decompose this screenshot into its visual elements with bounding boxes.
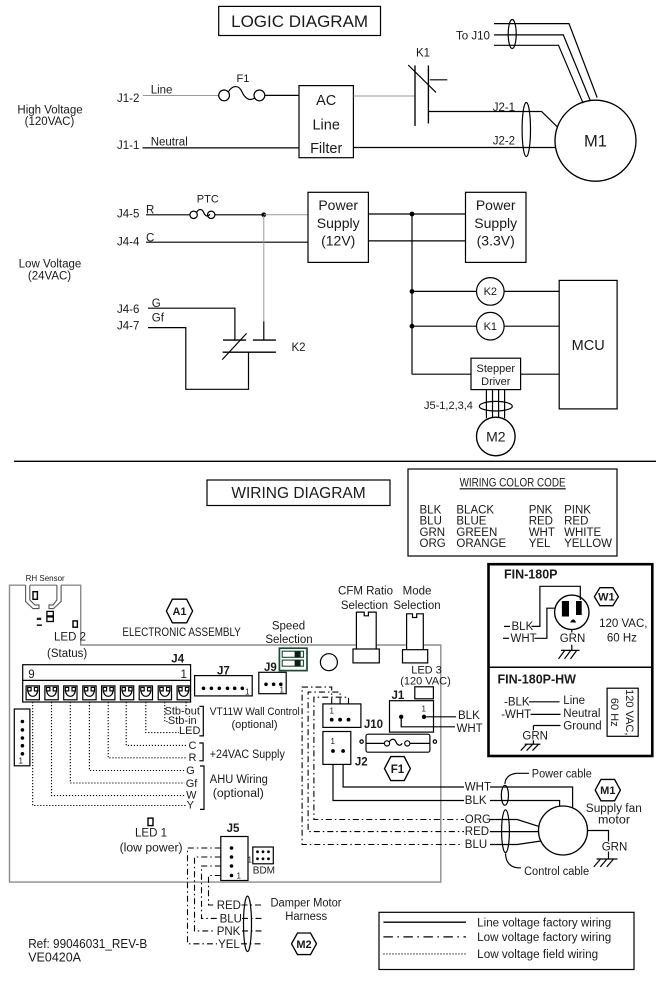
svg-text:Selection: Selection [265, 634, 312, 646]
svg-text:WHT: WHT [529, 527, 555, 539]
svg-text:PNK: PNK [217, 926, 241, 938]
ground symbol (HW) [521, 740, 541, 750]
flag A1 hexagon [166, 599, 192, 623]
svg-text:W1: W1 [598, 592, 615, 604]
svg-text:RH Sensor: RH Sensor [26, 574, 65, 583]
wire BLU stub [242, 917, 264, 919]
svg-text:BLU: BLU [465, 839, 487, 851]
svg-text:Ground: Ground [563, 721, 601, 733]
svg-text:GRN: GRN [602, 841, 628, 853]
wire K1 coil to MCU [504, 325, 559, 327]
wire RED stub [242, 904, 264, 906]
connector J10 body [323, 704, 361, 728]
svg-text:A1: A1 [172, 606, 186, 618]
svg-text:GRN: GRN [420, 527, 446, 539]
svg-text:J1-2: J1-2 [117, 93, 139, 105]
wire J5-2 [492, 390, 494, 418]
wire J4 pin4 C dotted [126, 702, 187, 745]
svg-text:AHU Wiring: AHU Wiring [210, 774, 268, 786]
wire YEL stub [241, 943, 264, 945]
junction dot top trunk [410, 212, 415, 217]
wire J5-1 [485, 390, 487, 419]
component dash 2 [37, 624, 42, 626]
wire PTC to junction [215, 214, 264, 216]
label Damper Motor Harness [271, 898, 342, 923]
wire J2 pin WHT [343, 764, 464, 787]
wire J4 pin6 G dotted [89, 702, 185, 771]
wire trunk A vertical gray [263, 216, 265, 322]
junction dot K1 row [410, 324, 415, 329]
contact K1 (NC) [408, 48, 447, 127]
svg-text:BLU: BLU [420, 516, 442, 528]
wire J4 pin7 Gf dotted [70, 702, 184, 783]
bracket VT11W group [199, 706, 203, 736]
svg-text:120 VAC,: 120 VAC, [599, 618, 647, 630]
DIP switch speed selection [279, 648, 307, 670]
bracket 24VAC group [199, 743, 203, 761]
svg-text:J2: J2 [355, 757, 368, 769]
svg-text:WHITE: WHITE [564, 527, 601, 539]
svg-text:J5: J5 [227, 823, 240, 835]
connector J6 body [14, 709, 30, 766]
separator line [14, 460, 656, 462]
svg-text:F1: F1 [237, 73, 250, 85]
svg-text:Neutral: Neutral [563, 708, 600, 720]
FIN-180P outer box [489, 564, 653, 756]
wire J5-3 [498, 390, 500, 418]
svg-text:LED 2: LED 2 [54, 632, 86, 644]
wire trunk to K1 coil [412, 325, 477, 327]
motor M2 [477, 417, 516, 456]
title WIRING DIAGRAM [207, 480, 390, 506]
svg-text:To J10: To J10 [456, 31, 490, 43]
cable ellipse power [501, 785, 508, 805]
block MCU [559, 280, 617, 409]
svg-text:PNK: PNK [529, 504, 553, 516]
svg-text:K2: K2 [292, 342, 306, 354]
wire PS12 to PS33 top [368, 213, 465, 215]
svg-text:BLK: BLK [458, 710, 480, 722]
mounting hole circle [320, 654, 337, 671]
svg-text:K1: K1 [416, 48, 430, 60]
svg-text:Neutral: Neutral [151, 136, 188, 148]
cable ellipse control [502, 810, 510, 853]
cable ellipse To J10 [508, 20, 516, 49]
label AHU Wiring (optional) [210, 774, 268, 800]
wire To J10 line 2 [494, 35, 590, 101]
svg-text:9: 9 [28, 669, 34, 681]
wire WHT tick [503, 637, 509, 639]
wire WHT to plug [535, 608, 556, 638]
wire motor GRN [588, 831, 609, 860]
LED 2 component [73, 621, 77, 627]
svg-text:Ref: 99046031_REV-B: Ref: 99046031_REV-B [28, 937, 147, 951]
label High Voltage (120VAC) [17, 104, 82, 128]
svg-text:GRN: GRN [560, 633, 586, 645]
wire trunk to K2 coil [412, 290, 477, 292]
relay coil K1 [477, 312, 505, 340]
RH sensor left finger [26, 585, 39, 608]
wire BLK to prong [532, 586, 581, 626]
label Mode Selection [393, 585, 440, 612]
svg-text:WIRING COLOR CODE: WIRING COLOR CODE [460, 477, 566, 489]
legend line dash-dot [383, 936, 466, 938]
svg-text:J4-4: J4-4 [117, 237, 140, 249]
electronic assembly outline [10, 585, 441, 882]
svg-text:ELECTRONIC ASSEMBLY: ELECTRONIC ASSEMBLY [122, 627, 241, 639]
svg-text:C: C [189, 740, 197, 752]
wire J4 pin1 Stb-out dotted [185, 702, 187, 711]
wire PS12 to PS33 bottom [368, 240, 465, 242]
cable ellipse damper harness [244, 896, 252, 951]
svg-text:Damper Motor: Damper Motor [271, 898, 342, 910]
connector J1 body [390, 701, 434, 732]
svg-text:GRN: GRN [522, 730, 548, 742]
wire J2 pin BLK [333, 764, 464, 800]
svg-text:-WHT: -WHT [501, 709, 531, 721]
svg-text:1: 1 [19, 757, 24, 766]
wire J4 pin8 W dotted [52, 702, 186, 796]
svg-text:J1-1: J1-1 [117, 140, 139, 152]
wire BLK to motor [490, 801, 560, 807]
wire trunk A vertical black [263, 322, 265, 341]
callout arc control cable [506, 854, 522, 868]
svg-text:Speed: Speed [272, 620, 305, 632]
plug prong right [576, 601, 582, 615]
block Stepper Driver [471, 358, 521, 389]
wire J5 pin4 to RED [209, 876, 221, 906]
wire J4-6 G to K2 contact [148, 308, 235, 340]
switch Mode base [403, 650, 428, 663]
rotated label 120 VAC 60 Hz box [607, 688, 638, 736]
connector J2 body [323, 732, 351, 765]
wire J1 pin1 BLK [426, 716, 456, 718]
svg-text:Harness: Harness [285, 911, 327, 923]
svg-text:(120 VAC): (120 VAC) [400, 675, 451, 687]
svg-text:M1: M1 [600, 785, 615, 797]
svg-text:LED: LED [179, 725, 200, 737]
svg-text:M2: M2 [486, 429, 506, 445]
block AC Line Filter [299, 86, 353, 158]
wire To J10 line 3 [494, 45, 583, 103]
svg-text:CFM Ratio: CFM Ratio [338, 585, 393, 597]
svg-text:Low voltage factory wiring: Low voltage factory wiring [477, 932, 611, 944]
label Speed Selection [265, 620, 312, 646]
wire J4 pin3 LED dotted [146, 702, 179, 733]
RH sensor right finger [49, 585, 61, 608]
svg-text:Selection: Selection [341, 600, 388, 612]
svg-text:Supply: Supply [317, 215, 360, 231]
motor M1 supply fan [539, 806, 588, 855]
svg-text:Gf: Gf [186, 778, 199, 790]
wire J4 pin2 Stb-in dotted [165, 702, 169, 722]
component dash 1 [37, 618, 41, 620]
junction dot R [261, 212, 266, 217]
svg-text:Control cable: Control cable [524, 866, 589, 878]
connector J4 body [23, 665, 191, 702]
J4 clips [26, 686, 190, 700]
svg-text:M2: M2 [296, 939, 311, 951]
flag M2 hexagon [292, 933, 317, 955]
svg-text:ORG: ORG [420, 538, 446, 550]
svg-text:Line: Line [312, 118, 339, 134]
label VT11W Wall Control (optional) [210, 706, 300, 731]
svg-text:(Status): (Status) [47, 648, 87, 660]
svg-text:(optional): (optional) [232, 719, 278, 731]
wire ORG to motor [490, 820, 539, 827]
svg-text:J4-7: J4-7 [117, 321, 139, 333]
flag M1 hexagon [595, 779, 620, 800]
svg-text:120 VAC,: 120 VAC, [623, 689, 635, 735]
wire stepper driver to MCU [521, 373, 560, 375]
svg-text:AC: AC [316, 93, 336, 109]
fuse PTC [190, 194, 219, 219]
flag W1 hexagon [594, 588, 618, 606]
svg-text:1: 1 [331, 737, 336, 746]
svg-text:1: 1 [237, 872, 242, 881]
svg-text:Low voltage field wiring: Low voltage field wiring [477, 949, 598, 961]
plug prong left [562, 601, 569, 617]
wire BLU to motor [490, 841, 541, 845]
wire junction to PS12 [264, 214, 308, 216]
wire J4-4 C to PS12 [146, 241, 308, 243]
svg-text:1: 1 [248, 856, 253, 865]
svg-text:VT11W Wall Control: VT11W Wall Control [210, 706, 300, 718]
component pads [47, 611, 53, 616]
svg-text:WHT: WHT [457, 723, 483, 735]
svg-text:Supply: Supply [474, 215, 517, 231]
fuse F1 body (wiring) [360, 734, 437, 752]
wire To J10 line 1 [494, 24, 597, 98]
LED 3 component [415, 687, 434, 699]
svg-text:Gf: Gf [152, 312, 165, 324]
legend box [379, 912, 634, 969]
svg-text:J4-6: J4-6 [117, 304, 139, 316]
svg-text:Power: Power [318, 197, 358, 213]
svg-text:J5-1,2,3,4: J5-1,2,3,4 [424, 400, 473, 412]
svg-text:FIN-180P-HW: FIN-180P-HW [498, 673, 577, 687]
svg-text:BLK: BLK [420, 504, 442, 516]
svg-text:J4: J4 [171, 654, 184, 666]
svg-text:J2-2: J2-2 [493, 135, 515, 147]
svg-text:BLK: BLK [512, 621, 534, 633]
flag F1 hexagon [385, 757, 411, 781]
wire AC filter to J2-2 [353, 147, 555, 149]
svg-text:(24VAC): (24VAC) [28, 270, 71, 282]
label Supply fan motor [586, 803, 642, 827]
contact K2 plates [222, 333, 305, 359]
svg-text:BLUE: BLUE [456, 516, 486, 528]
svg-text:WHT: WHT [511, 633, 537, 645]
svg-text:(optional): (optional) [213, 788, 264, 800]
svg-text:WHT: WHT [465, 782, 491, 794]
svg-text:BLACK: BLACK [456, 504, 494, 516]
svg-text:RED: RED [465, 826, 489, 838]
ground symbol (motor) [594, 859, 618, 867]
wire J4 pin9 Y dotted [33, 702, 186, 806]
svg-text:G: G [186, 765, 195, 777]
svg-text:Power cable: Power cable [532, 768, 592, 780]
svg-text:1: 1 [245, 688, 250, 697]
svg-text:+24VAC Supply: +24VAC Supply [210, 749, 285, 761]
svg-text:Line: Line [151, 85, 173, 97]
wire RED to motor [490, 831, 539, 833]
svg-text:Selection: Selection [393, 600, 440, 612]
svg-text:1: 1 [330, 707, 335, 716]
svg-text:J2-1: J2-1 [493, 102, 515, 114]
svg-text:(low power): (low power) [120, 843, 183, 855]
label 120 VAC 60 Hz [599, 618, 647, 645]
FIN divider [489, 666, 653, 668]
wire AC filter to K1 contact [353, 95, 415, 97]
fuse F1 [219, 73, 265, 101]
title LOGIC DIAGRAM [219, 6, 381, 35]
svg-text:Stepper: Stepper [477, 363, 516, 375]
wire GRN to Ground [533, 726, 560, 731]
svg-text:Low Voltage: Low Voltage [19, 259, 82, 271]
wire K1 to J2-1 [428, 112, 557, 128]
relay coil K2 [477, 278, 505, 306]
svg-text:Line voltage factory wiring: Line voltage factory wiring [477, 917, 611, 929]
svg-text:High Voltage: High Voltage [17, 104, 82, 116]
wire J5 pin2 to PNK [195, 857, 221, 931]
svg-text:Mode: Mode [403, 585, 432, 597]
svg-text:R: R [189, 752, 197, 764]
wire J4-5 R to PTC [146, 214, 190, 216]
wire PNK stub [242, 930, 264, 932]
junction dot K2 row [410, 289, 415, 294]
cable ellipse J5 [479, 401, 512, 411]
ground symbol (plug) [559, 645, 580, 659]
block Power Supply (3.3V) [466, 192, 527, 262]
svg-text:WIRING DIAGRAM: WIRING DIAGRAM [231, 485, 365, 502]
plug W1 circle [555, 595, 589, 629]
svg-text:BDM: BDM [253, 866, 275, 877]
svg-text:Driver: Driver [481, 376, 511, 388]
svg-text:motor: motor [598, 814, 630, 826]
wire J1-1 Neutral to AC line filter [143, 147, 299, 149]
wire J5 pin3 to BLU [202, 866, 221, 918]
switch CFM ratio stem [356, 612, 376, 649]
svg-text:YEL: YEL [529, 538, 551, 550]
svg-text:F1: F1 [391, 764, 405, 776]
wire K2 coil to MCU [504, 290, 559, 292]
legend line dotted [383, 953, 466, 955]
motor M1 [555, 100, 636, 181]
svg-text:Line: Line [563, 695, 585, 707]
svg-text:1: 1 [422, 705, 427, 714]
wire J5-4 [504, 390, 506, 419]
svg-text:RED: RED [564, 516, 588, 528]
svg-text:ORG: ORG [465, 814, 491, 826]
svg-text:LOGIC DIAGRAM: LOGIC DIAGRAM [231, 12, 368, 31]
svg-text:LED 1: LED 1 [135, 828, 167, 840]
cable ellipse J2 [522, 103, 530, 157]
svg-text:RED: RED [217, 900, 241, 912]
switch Mode stem [407, 614, 424, 650]
LED 1 component [148, 818, 153, 826]
wire BLK to Line [529, 701, 560, 703]
legend line solid [383, 921, 466, 923]
wire WHT to Neutral [531, 713, 561, 715]
label Low Voltage (24VAC) [19, 259, 82, 283]
wire J10 pin1 ORG [314, 697, 464, 819]
svg-text:M1: M1 [584, 133, 607, 151]
svg-text:(3.3V): (3.3V) [477, 233, 515, 249]
svg-text:1: 1 [280, 686, 285, 695]
svg-text:Y: Y [187, 799, 195, 811]
wire fuse to AC line filter [265, 94, 299, 96]
svg-text:Supply fan: Supply fan [586, 803, 642, 815]
svg-text:BLK: BLK [465, 795, 487, 807]
svg-text:RED: RED [529, 516, 553, 528]
connector J5 body [221, 837, 248, 881]
callout arc power cable [505, 773, 529, 784]
wire trunk to stepper driver [412, 373, 471, 375]
svg-text:ORANGE: ORANGE [456, 538, 506, 550]
wire plug stem [571, 630, 573, 633]
svg-text:1: 1 [181, 669, 187, 681]
table WIRING COLOR CODE [408, 469, 617, 556]
connector BDM body [248, 847, 276, 877]
svg-text:K1: K1 [484, 321, 497, 333]
svg-text:(12V): (12V) [321, 233, 355, 249]
switch CFM ratio base [353, 649, 379, 663]
wire J4 pin5 R dotted [108, 702, 187, 758]
svg-text:VE0420A: VE0420A [28, 951, 81, 965]
label CFM Ratio Selection [338, 585, 393, 612]
wire WHT to motor [490, 787, 573, 808]
svg-text:PTC: PTC [197, 194, 219, 206]
svg-text:J10: J10 [364, 719, 383, 731]
wire J10 pin2 RED [308, 692, 464, 832]
svg-text:YELLOW: YELLOW [564, 538, 612, 550]
svg-text:PINK: PINK [564, 504, 591, 516]
connector J7 body [195, 676, 253, 697]
svg-text:MCU: MCU [572, 338, 605, 354]
RH sensor chip [33, 592, 37, 600]
LED 3 label [400, 664, 451, 687]
connector J9 body [259, 672, 286, 694]
wire trunk B vertical [411, 214, 413, 374]
wire J1-2 Line to fuse [143, 95, 219, 97]
svg-text:YEL: YEL [218, 939, 240, 951]
svg-text:-BLK: -BLK [504, 697, 530, 709]
svg-text:K2: K2 [484, 286, 497, 298]
svg-text:GREEN: GREEN [456, 527, 497, 539]
wire J4-7 Gf to K2 contact [148, 328, 249, 390]
svg-text:J4-5: J4-5 [117, 209, 139, 221]
svg-text:BLU: BLU [220, 913, 242, 925]
wire BLK tick [504, 625, 510, 627]
plug ground pin [570, 619, 576, 622]
svg-text:60 Hz: 60 Hz [607, 633, 637, 645]
svg-text:Power: Power [476, 197, 516, 213]
svg-text:(120VAC): (120VAC) [25, 116, 75, 128]
wire J5 pin1 to YEL [188, 848, 221, 944]
wire J1 pin2 WHT [401, 719, 455, 727]
bracket AHU group [200, 766, 204, 809]
svg-text:60 Hz: 60 Hz [608, 698, 620, 727]
wire J10 pin3 BLU [302, 687, 462, 844]
svg-text:FIN-180P: FIN-180P [504, 568, 558, 582]
block Power Supply (12V) [308, 192, 368, 262]
svg-text:Filter: Filter [310, 141, 342, 157]
